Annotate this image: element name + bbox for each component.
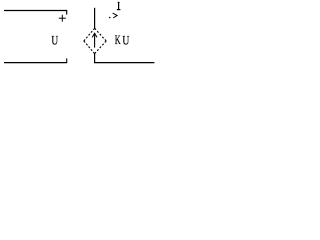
svg-text:U: U	[122, 34, 130, 48]
label I	[117, 2, 121, 9]
wire bottom-right	[94, 62, 154, 64]
wire top-left	[4, 10, 67, 12]
svg-text:K: K	[115, 33, 121, 47]
plus sign polarity	[59, 15, 66, 22]
wire bottom-left	[4, 62, 67, 64]
terminal tick bottom-left port	[66, 58, 68, 62]
dashed current direction arrow	[109, 13, 117, 18]
diamond edge bottom-right	[95, 41, 107, 54]
terminal tick top-left port	[66, 11, 68, 15]
svg-text:U: U	[51, 34, 58, 48]
wire vertical bottom of source	[94, 54, 96, 63]
diamond edge bottom-left	[84, 41, 95, 54]
current source internal arrow	[92, 33, 97, 47]
diamond edge top-left	[84, 28, 95, 41]
dependent current source diamond (dashed), edge top-right	[95, 28, 107, 41]
wire vertical top of source	[94, 8, 96, 29]
